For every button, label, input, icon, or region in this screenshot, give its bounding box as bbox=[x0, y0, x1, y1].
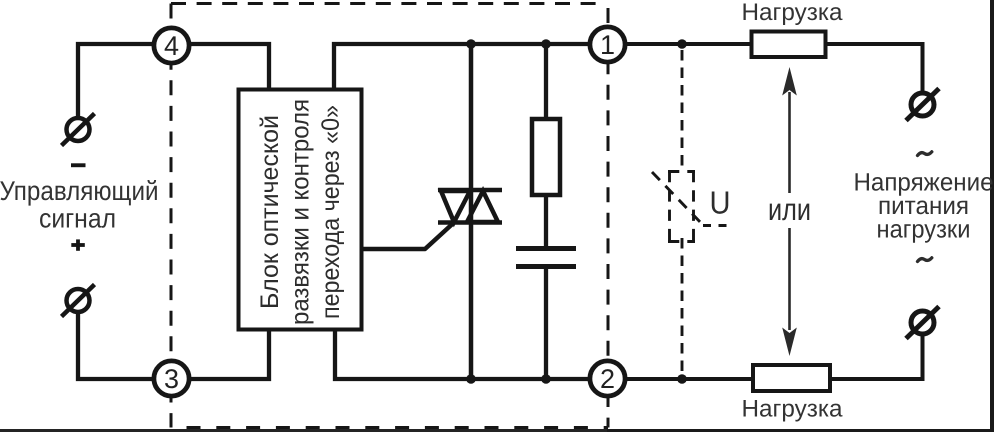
label tilde top bbox=[918, 152, 932, 156]
svg-text:Нагрузка: Нагрузка bbox=[741, 0, 843, 26]
load terminal bottom-right (circle-slash) bbox=[906, 307, 939, 339]
control terminal minus (circle-slash) bbox=[62, 114, 95, 146]
load resistor top bbox=[752, 32, 826, 58]
triac branch wire bbox=[469, 44, 474, 379]
svg-text:Блок оптической: Блок оптической bbox=[256, 115, 284, 309]
svg-text:развязки и контроля: развязки и контроля bbox=[287, 99, 315, 325]
wire top load resistor to right terminal bbox=[825, 44, 923, 92]
control terminal plus (circle-slash) bbox=[62, 285, 95, 317]
junction dot bottom triac bbox=[466, 374, 476, 384]
wire opto block top-right to top rail bbox=[334, 44, 608, 90]
wire control minus to terminal 4 bbox=[78, 44, 171, 116]
junction dot bottom varistor bbox=[677, 374, 687, 384]
wire terminal 4 to opto block top-left bbox=[171, 44, 269, 90]
label tilde bottom bbox=[918, 258, 932, 262]
page border bottom-right (thicker) bbox=[607, 429, 994, 432]
plus sign bbox=[71, 243, 85, 247]
triac VS1 top bar bbox=[438, 188, 502, 193]
snubber branch wire bbox=[544, 44, 548, 120]
svg-text:Управляющий: Управляющий bbox=[0, 176, 159, 206]
terminal 1 circle bbox=[590, 27, 625, 62]
page border bottom (full width) bbox=[0, 429, 994, 432]
svg-text:U: U bbox=[709, 185, 730, 221]
svg-text:или: или bbox=[768, 192, 811, 227]
dashed enclosure box bbox=[171, 2, 608, 428]
page border right bbox=[990, 0, 994, 432]
snubber capacitor C1 bottom plate bbox=[516, 264, 576, 269]
svg-text:перехода через «0»: перехода через «0» bbox=[317, 105, 345, 319]
svg-text:1: 1 bbox=[600, 30, 615, 60]
junction dot top varistor bbox=[677, 39, 687, 49]
arrow или shaft bottom bbox=[788, 228, 791, 330]
minus sign bbox=[71, 163, 86, 167]
varistor RU1 diagonal (dashed) bbox=[652, 172, 703, 225]
terminal 4 circle bbox=[154, 28, 189, 63]
svg-text:2: 2 bbox=[600, 364, 615, 394]
svg-text:3: 3 bbox=[164, 364, 179, 394]
varistor RU1 wire top (dashed) bbox=[681, 50, 684, 171]
wire bottom load resistor to right terminal bbox=[830, 336, 923, 379]
junction dot top triac bbox=[466, 39, 476, 49]
junction dot bottom snubber bbox=[541, 374, 551, 384]
gate wire bbox=[363, 223, 454, 250]
varistor RU1 body (dashed rect) bbox=[668, 171, 695, 242]
opto block U1 bbox=[239, 90, 362, 330]
arrow или shaft top bbox=[788, 92, 791, 193]
terminal 2 circle bbox=[590, 361, 625, 396]
arrow head down bbox=[782, 328, 797, 357]
snubber capacitor C1 top plate bbox=[516, 246, 576, 251]
varistor RU1 wire bottom (dashed) bbox=[681, 238, 684, 379]
load resistor bottom bbox=[753, 365, 830, 391]
triac VS1 bottom bar bbox=[438, 220, 502, 225]
load terminal top-right (circle-slash) bbox=[906, 89, 939, 121]
svg-text:4: 4 bbox=[164, 31, 179, 61]
wire control plus to terminal 3 bbox=[78, 314, 171, 379]
triac VS1 left triangle bbox=[441, 191, 470, 222]
terminal 3 circle bbox=[154, 361, 189, 396]
svg-text:нагрузки: нагрузки bbox=[876, 215, 970, 243]
arrow head up bbox=[782, 67, 797, 96]
triac VS1 right triangle bbox=[467, 191, 498, 222]
snubber resistor R1 bbox=[532, 119, 560, 195]
wire terminal 3 to opto block bottom-left bbox=[171, 329, 269, 379]
junction dot top snubber bbox=[541, 39, 551, 49]
wire opto block bottom-right to bottom rail bbox=[335, 329, 608, 379]
svg-text:сигнал: сигнал bbox=[39, 203, 116, 233]
svg-text:Нагрузка: Нагрузка bbox=[741, 395, 843, 422]
